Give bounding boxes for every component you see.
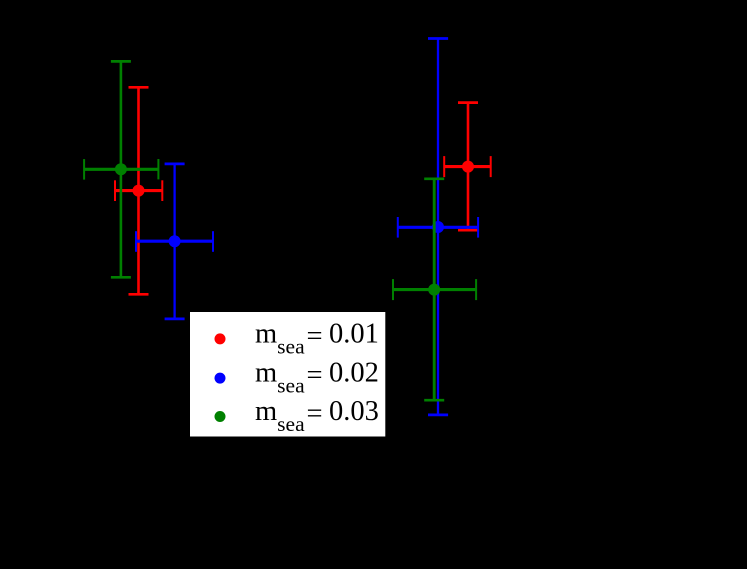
data point red right: marker — [462, 161, 474, 173]
data point red left: marker — [133, 185, 145, 197]
data point green left: marker — [115, 163, 127, 175]
data point green right: error bars — [393, 179, 476, 400]
data point blue left: marker — [169, 235, 181, 247]
data point red right: error bars — [444, 103, 491, 231]
data point blue left: error bars — [136, 164, 213, 319]
data point red left: error bars — [115, 87, 162, 294]
legend box — [190, 312, 385, 437]
legend marker blue — [215, 373, 226, 384]
legend marker red — [215, 333, 226, 344]
data point blue right: error bars — [398, 39, 478, 415]
data point blue right: marker — [432, 221, 444, 233]
legend marker green — [215, 411, 226, 422]
data point green left: error bars — [84, 61, 158, 277]
data point green right: marker — [428, 284, 440, 296]
